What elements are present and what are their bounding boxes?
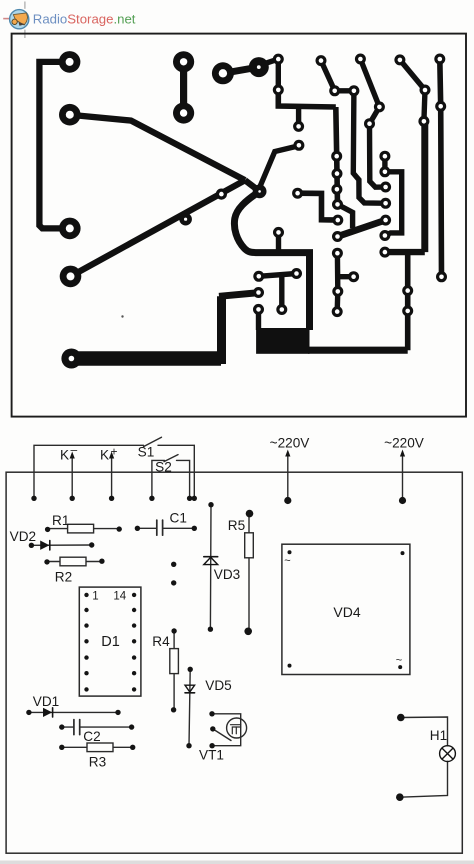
node S2 left	[149, 496, 154, 501]
wire BP2 to T1	[262, 59, 278, 64]
node R5 top	[246, 510, 254, 518]
scan edge bottom	[0, 861, 474, 864]
pad dumbbell top	[173, 51, 194, 72]
pin D1 left 6	[84, 671, 88, 675]
wire S2 left leg	[152, 460, 165, 498]
logo crosshair top tick	[24, 2, 26, 9]
pad big filled	[249, 57, 269, 77]
pad M11	[436, 271, 447, 282]
resistor R3	[62, 746, 133, 748]
pad PL	[61, 349, 81, 369]
node K- rail	[31, 496, 36, 501]
pad TA	[253, 271, 264, 282]
svg-text:S1: S1	[138, 445, 155, 460]
svg-text:R3: R3	[89, 755, 106, 770]
node R4 top	[171, 628, 176, 633]
wire PL riser	[217, 296, 226, 364]
wire M1 elbow	[278, 90, 336, 107]
pad T1	[273, 54, 284, 65]
wire P4 diagonal	[71, 180, 246, 276]
wire A to B	[382, 156, 387, 172]
wire N column	[405, 252, 411, 350]
pad col6	[332, 231, 343, 242]
svg-text:~: ~	[396, 655, 402, 667]
node R2 right	[99, 559, 104, 564]
wire RR stub	[256, 309, 261, 330]
pad diag ring	[216, 189, 227, 200]
node C2 left	[59, 724, 64, 729]
resistor R5	[248, 514, 250, 632]
ground plane fill	[256, 328, 309, 354]
svg-text:K: K	[60, 448, 69, 463]
wire zigzag	[338, 204, 353, 228]
pin D1 left 5	[84, 655, 88, 659]
pad T4	[394, 54, 405, 65]
pad col3	[331, 184, 342, 195]
pad dumbbell bottom	[173, 102, 194, 123]
wire T1 to M1	[276, 59, 281, 90]
logo crosshair left tick	[3, 18, 9, 20]
pin D1 left 2	[84, 608, 88, 612]
node VD1 left	[26, 710, 31, 715]
wire thick vertical	[421, 121, 428, 252]
pad P1	[59, 51, 81, 73]
pin D1 right 11	[132, 639, 136, 643]
pad M3	[348, 85, 359, 96]
logo crosshair bottom tick	[24, 30, 26, 38]
resistor R1	[48, 528, 120, 530]
wire bottom thick	[308, 347, 408, 354]
pad M10	[435, 101, 446, 112]
pin D1 left 4	[84, 639, 88, 643]
transistor VT1	[227, 718, 247, 738]
pad side	[348, 271, 359, 282]
svg-text:~: ~	[284, 555, 290, 567]
wire column top	[336, 107, 338, 204]
svg-text:VT1: VT1	[199, 748, 224, 763]
svg-text:RadioStorage.net: RadioStorage.net	[33, 12, 136, 27]
wire G horizontal	[385, 249, 425, 255]
node C1 left	[135, 526, 140, 531]
logo globe	[10, 10, 29, 29]
node C2 right	[129, 724, 134, 729]
pad A	[379, 151, 390, 162]
node VT1 top	[209, 711, 214, 716]
pad C	[380, 182, 391, 193]
diode VD1	[29, 711, 118, 713]
node S1 right	[192, 496, 197, 501]
lamp H1	[440, 746, 456, 762]
pad ZP2	[253, 287, 264, 298]
arrow 220V left	[287, 453, 289, 501]
pad M8	[420, 85, 431, 96]
pad SP	[273, 227, 284, 238]
wire M5 to junction	[260, 146, 299, 187]
pad col4	[332, 199, 343, 210]
node R3 left	[59, 745, 64, 750]
svg-text:R2: R2	[55, 569, 72, 584]
wire S-curve	[234, 191, 309, 330]
svg-text:K: K	[100, 448, 109, 463]
pin D1 right 12	[132, 623, 136, 627]
pad M9	[418, 116, 429, 127]
node K- in	[70, 496, 75, 501]
wire M6 to M7	[370, 107, 380, 124]
wire PL top link	[219, 293, 259, 297]
diode VD2	[31, 544, 91, 546]
pad M6	[374, 101, 385, 112]
wire M7 drop	[370, 124, 386, 188]
pin D1 right 9	[132, 671, 136, 675]
node VD1 right	[115, 710, 120, 715]
node VD5 top	[188, 667, 193, 672]
pad M1	[273, 84, 284, 95]
node 220V right	[399, 497, 406, 504]
arrow K+	[111, 455, 113, 499]
node R1 left	[45, 527, 50, 532]
pad E	[380, 215, 391, 226]
capacitor C2	[62, 726, 74, 728]
pad N2	[402, 305, 413, 316]
wire M2 to M3	[335, 88, 354, 93]
IC D1 body	[79, 587, 141, 696]
pad TC	[276, 304, 287, 315]
svg-text:VD2: VD2	[10, 529, 36, 544]
node VD3 bottom	[208, 627, 213, 632]
svg-text:VD5: VD5	[205, 678, 231, 693]
logo megaphone mouth	[12, 19, 17, 24]
svg-text:S2: S2	[155, 459, 172, 474]
wire M9 to M8	[424, 90, 425, 121]
pad big ring	[212, 62, 234, 84]
svg-text:14: 14	[113, 590, 126, 602]
pad TB	[291, 268, 302, 279]
node VD2 left	[29, 543, 34, 548]
wire M8 to T4	[400, 60, 425, 90]
wire P1 to P3 rail	[39, 62, 69, 229]
node VD5 bottom	[186, 743, 191, 748]
wire K- rail with S1 bracket	[34, 445, 144, 498]
node K+ in	[109, 496, 114, 501]
pin D1 right 8	[132, 687, 136, 691]
svg-text:VD3: VD3	[214, 567, 240, 582]
svg-text:VD4: VD4	[333, 604, 360, 620]
node R2 left	[44, 559, 49, 564]
wire B loop F	[385, 172, 402, 236]
svg-text:R1: R1	[52, 513, 69, 528]
node R5 bottom	[244, 628, 252, 636]
svg-text:~220V: ~220V	[384, 436, 424, 451]
pin D1 left 1	[84, 593, 88, 597]
svg-text:+: +	[111, 445, 118, 459]
node H1 bottom	[396, 793, 404, 801]
wire T horizontal	[259, 274, 297, 277]
wire Z link	[298, 193, 338, 220]
wire dumbbell bar	[180, 62, 187, 113]
wire side stub	[338, 274, 354, 279]
pin VD4 tr	[401, 551, 405, 555]
wire T2 diag	[321, 61, 335, 91]
pin D1 left 3	[84, 623, 88, 627]
placement board outline	[6, 472, 462, 853]
pad M4	[293, 121, 304, 132]
pad M7	[364, 118, 375, 129]
pad N1	[402, 285, 413, 296]
pad col7	[332, 248, 343, 259]
resistor R4	[173, 631, 175, 710]
svg-text:H1: H1	[430, 728, 447, 743]
pad col1	[331, 151, 342, 162]
wire junction link	[245, 180, 260, 191]
node C1 right	[192, 526, 197, 531]
node VT1 bottom	[209, 743, 214, 748]
node R4 bottom	[171, 707, 176, 712]
pad P3	[59, 218, 81, 240]
wire S1 right leg	[158, 445, 194, 498]
pad diag filled	[179, 213, 192, 226]
pin VD4 bl	[288, 664, 292, 668]
wire P2 diagonal	[70, 115, 245, 181]
pad RR	[253, 304, 264, 315]
svg-text:R5: R5	[228, 518, 245, 533]
svg-text:R4: R4	[152, 634, 170, 649]
pad T3	[355, 54, 366, 65]
wire column lower	[335, 253, 341, 311]
svg-text:C1: C1	[170, 511, 187, 526]
node VT1 middle	[210, 726, 215, 731]
pin VD4 br	[398, 665, 402, 669]
node mid lower	[171, 580, 176, 585]
diode VD3	[209, 505, 212, 630]
svg-text:D1: D1	[101, 634, 120, 650]
pad F	[379, 230, 390, 241]
wire T3 diag	[360, 59, 379, 107]
svg-text:~220V: ~220V	[270, 436, 310, 451]
pad M2	[329, 85, 340, 96]
wire S2 right leg	[177, 460, 190, 498]
switch S1 lever	[144, 437, 162, 446]
node H1 top	[397, 714, 405, 722]
wire big pair bar	[223, 67, 259, 73]
wire M3 drop	[353, 91, 385, 204]
arrow 220V right	[402, 453, 404, 501]
pad Z	[292, 188, 303, 199]
node S2 right	[187, 496, 192, 501]
PCB board outline	[12, 34, 466, 417]
pin D1 right 14	[132, 593, 136, 597]
node mid upper	[171, 562, 176, 567]
svg-text:1: 1	[92, 590, 98, 602]
bridge VD4 body	[282, 544, 410, 674]
pad T2	[316, 55, 327, 66]
node VD2 right	[89, 542, 94, 547]
pad P2	[59, 104, 81, 126]
pad junction	[253, 185, 267, 199]
lamp H1 wiring	[401, 717, 448, 746]
svg-text:–: –	[71, 443, 78, 457]
node 220V left	[284, 497, 291, 504]
pad P4	[60, 266, 82, 288]
arrow K-	[71, 455, 73, 499]
speck dot	[121, 315, 123, 317]
pad col9	[332, 306, 343, 317]
pad M5	[293, 140, 304, 151]
pin D1 right 13	[132, 608, 136, 612]
switch S2 lever	[164, 455, 178, 462]
wire thick diagonal	[338, 220, 386, 236]
svg-text:VD1: VD1	[33, 694, 59, 709]
pad D	[380, 198, 391, 209]
wire SP stub	[276, 232, 281, 252]
pad T5	[434, 54, 445, 65]
wire T vertical	[279, 275, 284, 310]
svg-text:C2: C2	[83, 729, 100, 744]
pin D1 right 10	[132, 655, 136, 659]
pad col2	[332, 168, 343, 179]
wire M4 stub	[296, 106, 301, 126]
node R3 right	[130, 745, 135, 750]
pad G	[379, 247, 390, 258]
resistor R2	[47, 561, 102, 563]
logo megaphone	[13, 13, 27, 25]
diode VD5	[189, 669, 190, 745]
pin VD4 tl	[288, 550, 292, 554]
capacitor C1	[137, 527, 156, 529]
logo dark wedge	[19, 22, 26, 26]
node VD3 top	[208, 502, 213, 507]
node R1 right	[117, 526, 122, 531]
pad col8	[332, 286, 343, 297]
pin D1 left 7	[84, 687, 88, 691]
pad col5	[332, 215, 343, 226]
wire PL thick	[71, 351, 221, 366]
wire T5 column	[440, 59, 442, 277]
pad B	[379, 166, 390, 177]
